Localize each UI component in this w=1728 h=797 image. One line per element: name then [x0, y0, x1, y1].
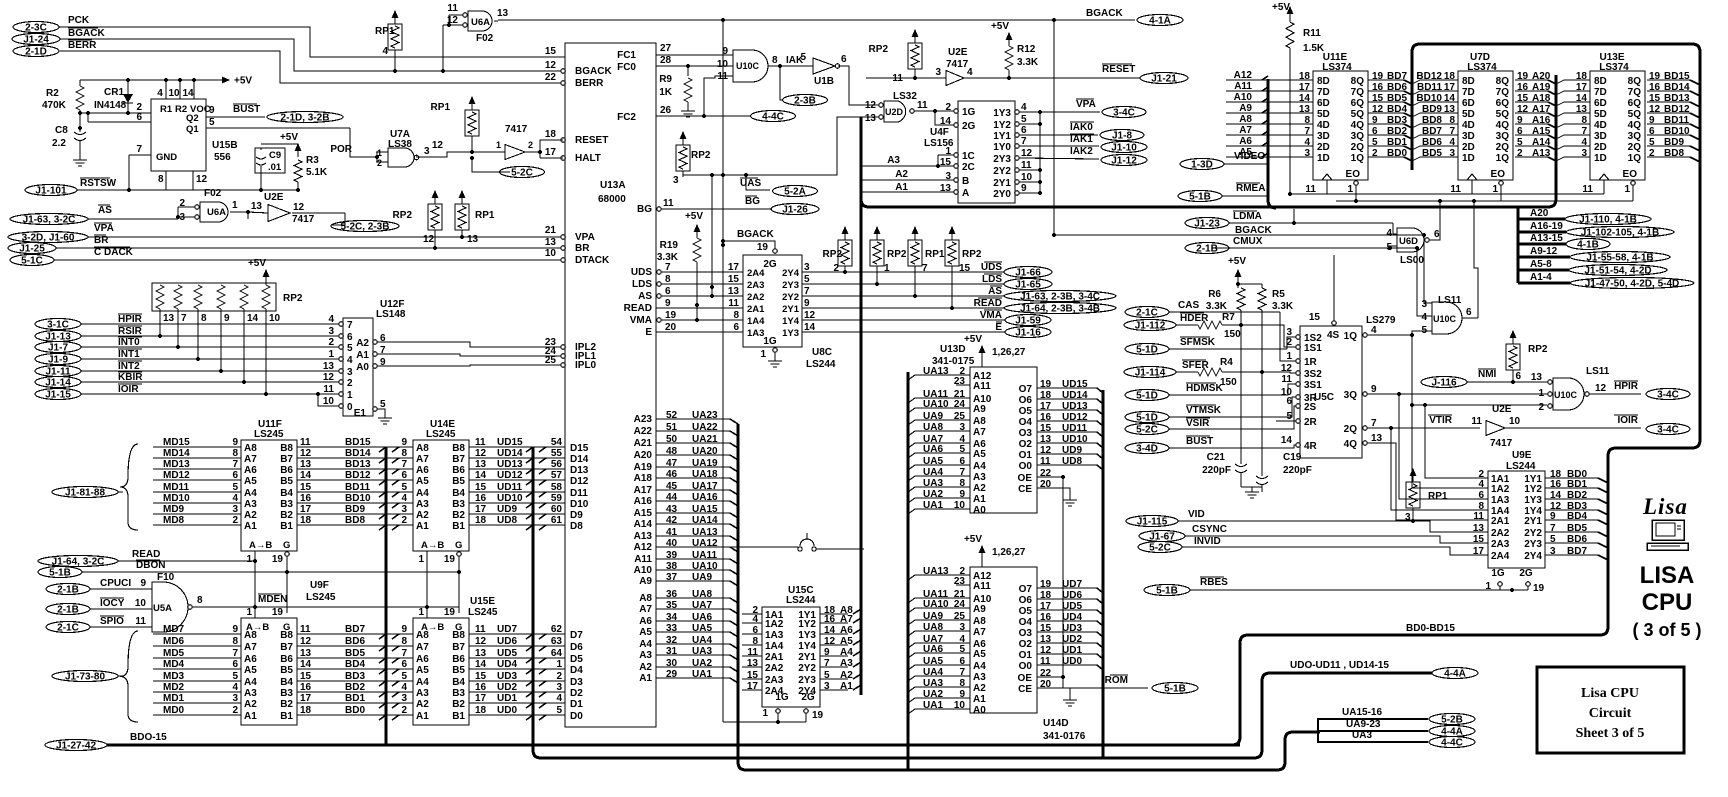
svg-text:7D: 7D: [1594, 87, 1607, 98]
svg-text:4: 4: [556, 693, 562, 704]
svg-text:4Q: 4Q: [1344, 439, 1358, 450]
svg-text:150: 150: [1224, 329, 1241, 340]
svg-text:VPA: VPA: [1076, 99, 1096, 110]
svg-text:BD1: BD1: [345, 693, 365, 704]
svg-text:INT0: INT0: [118, 337, 140, 348]
svg-text:LS244: LS244: [806, 359, 836, 370]
svg-text:A3: A3: [840, 658, 853, 669]
svg-text:READ: READ: [624, 303, 652, 314]
svg-text:39: 39: [666, 550, 678, 561]
svg-text:U10C: U10C: [1554, 390, 1578, 400]
svg-text:2G: 2G: [763, 259, 777, 270]
svg-text:+5V: +5V: [234, 76, 252, 87]
svg-text:1Q: 1Q: [1496, 153, 1510, 164]
svg-text:UA12: UA12: [692, 538, 718, 549]
svg-text:4: 4: [347, 355, 353, 366]
svg-text:5: 5: [1550, 534, 1556, 545]
svg-text:3: 3: [401, 504, 407, 515]
svg-text:B6: B6: [280, 465, 293, 476]
svg-text:15: 15: [1309, 312, 1321, 323]
svg-text:AS: AS: [638, 291, 652, 302]
svg-text:UA7: UA7: [692, 600, 712, 611]
svg-text:RP1: RP1: [1428, 491, 1448, 502]
svg-text:A15: A15: [634, 508, 653, 519]
svg-text:6: 6: [733, 322, 739, 333]
svg-text:2Y0: 2Y0: [993, 189, 1011, 200]
svg-text:19: 19: [1533, 583, 1545, 594]
svg-text:FC1: FC1: [617, 50, 636, 61]
svg-text:11: 11: [475, 624, 486, 635]
svg-text:J1-11: J1-11: [45, 367, 70, 378]
svg-text:BUST: BUST: [233, 104, 260, 115]
svg-text:GND: GND: [156, 152, 177, 163]
svg-text:A7: A7: [1239, 125, 1252, 136]
svg-text:BD7: BD7: [345, 624, 365, 635]
svg-text:+5V: +5V: [1272, 2, 1290, 13]
svg-text:UD12: UD12: [1062, 412, 1088, 423]
svg-text:2-1B: 2-1B: [57, 605, 79, 616]
svg-text:A17: A17: [634, 485, 653, 496]
svg-text:6Q: 6Q: [1496, 98, 1510, 109]
svg-text:19: 19: [444, 607, 456, 618]
svg-text:A→B: A→B: [421, 540, 444, 551]
svg-text:AS: AS: [988, 286, 1002, 297]
svg-text:17: 17: [300, 504, 312, 515]
svg-text:A11: A11: [1234, 81, 1252, 92]
svg-text:2A2: 2A2: [765, 663, 784, 674]
svg-text:11: 11: [917, 100, 928, 111]
svg-text:5D: 5D: [1317, 109, 1330, 120]
svg-text:B5: B5: [280, 665, 293, 676]
svg-text:61: 61: [551, 515, 563, 526]
svg-text:15: 15: [475, 671, 487, 682]
svg-text:UD4: UD4: [1062, 612, 1082, 623]
svg-text:A16-19: A16-19: [1530, 221, 1563, 232]
svg-text:J1-16: J1-16: [1015, 328, 1041, 339]
svg-text:BD8: BD8: [345, 515, 365, 526]
svg-text:UA15: UA15: [692, 504, 718, 515]
svg-text:1K: 1K: [659, 87, 673, 98]
svg-text:12: 12: [1021, 148, 1033, 159]
svg-text:UA18: UA18: [692, 469, 718, 480]
svg-text:RP1: RP1: [925, 249, 945, 260]
svg-text:8: 8: [665, 274, 671, 285]
svg-text:12: 12: [300, 636, 312, 647]
svg-text:BGACK: BGACK: [575, 66, 612, 77]
svg-text:11: 11: [323, 384, 334, 395]
svg-text:14: 14: [182, 88, 194, 99]
svg-text:C9: C9: [269, 150, 281, 161]
svg-text:O6: O6: [1019, 395, 1033, 406]
svg-text:B5: B5: [452, 476, 465, 487]
svg-text:6: 6: [401, 659, 407, 670]
svg-text:B7: B7: [280, 642, 293, 653]
svg-text:11: 11: [728, 298, 739, 309]
svg-text:1Y2: 1Y2: [798, 619, 816, 630]
svg-text:A2: A2: [244, 699, 257, 710]
svg-text:D11: D11: [570, 488, 588, 499]
svg-text:D7: D7: [570, 630, 583, 641]
svg-text:UD15: UD15: [497, 437, 523, 448]
svg-text:A8: A8: [973, 416, 986, 427]
svg-text:A19: A19: [634, 462, 653, 473]
svg-text:R19: R19: [660, 240, 679, 251]
svg-text:3: 3: [959, 622, 965, 633]
svg-text:14: 14: [475, 659, 487, 670]
svg-text:15: 15: [300, 482, 312, 493]
svg-text:MD7: MD7: [163, 624, 185, 635]
svg-text:CPU: CPU: [1642, 589, 1693, 616]
svg-text:J1-64, 3-2C: J1-64, 3-2C: [52, 557, 105, 568]
svg-text:6Q: 6Q: [1628, 98, 1642, 109]
svg-text:A2: A2: [895, 169, 908, 180]
svg-text:UD9: UD9: [1062, 445, 1082, 456]
svg-text:BD1: BD1: [1567, 479, 1587, 490]
svg-text:341-0175: 341-0175: [932, 356, 975, 367]
svg-text:J1-9: J1-9: [48, 355, 68, 366]
svg-text:6: 6: [401, 470, 407, 481]
svg-text:U8C: U8C: [812, 347, 832, 358]
svg-text:12: 12: [293, 202, 305, 213]
svg-text:UD2: UD2: [497, 682, 517, 693]
svg-text:1Q: 1Q: [1344, 331, 1358, 342]
svg-text:4S: 4S: [1327, 330, 1340, 341]
svg-text:O0: O0: [1019, 661, 1033, 672]
svg-text:LDS: LDS: [632, 279, 652, 290]
svg-text:J1-12: J1-12: [1111, 156, 1137, 167]
svg-text:5-1D: 5-1D: [1136, 391, 1158, 402]
svg-text:1: 1: [762, 708, 768, 719]
svg-text:VSIR: VSIR: [1186, 418, 1210, 429]
svg-text:D4: D4: [570, 665, 583, 676]
svg-text:6: 6: [959, 456, 965, 467]
svg-text:47: 47: [666, 458, 678, 469]
svg-text:A→B: A→B: [249, 540, 272, 551]
svg-text:27: 27: [660, 43, 672, 54]
svg-text:6: 6: [841, 54, 847, 65]
svg-text:RESET: RESET: [1102, 64, 1135, 75]
svg-text:OE: OE: [1018, 673, 1033, 684]
svg-text:2S: 2S: [1304, 402, 1317, 413]
svg-text:9: 9: [665, 298, 671, 309]
svg-text:19: 19: [812, 710, 824, 721]
svg-text:13: 13: [467, 234, 479, 245]
svg-text:8: 8: [772, 55, 778, 66]
svg-text:2Y3: 2Y3: [782, 280, 799, 291]
svg-text:MD5: MD5: [163, 648, 185, 659]
svg-text:A13-15: A13-15: [1530, 233, 1563, 244]
svg-text:UDS: UDS: [981, 262, 1002, 273]
svg-text:14: 14: [247, 313, 259, 324]
svg-text:7417: 7417: [946, 59, 969, 70]
svg-text:341-0176: 341-0176: [1043, 731, 1086, 742]
svg-text:220pF: 220pF: [1283, 465, 1312, 476]
svg-text:A3: A3: [244, 688, 257, 699]
svg-text:8D: 8D: [1594, 76, 1607, 87]
svg-text:B1: B1: [280, 521, 293, 532]
svg-text:UA22: UA22: [692, 422, 718, 433]
svg-text:9: 9: [824, 647, 830, 658]
svg-text:4Q: 4Q: [1351, 120, 1365, 131]
svg-text:J1-66: J1-66: [1015, 268, 1041, 279]
svg-text:2: 2: [347, 378, 353, 389]
svg-text:58: 58: [551, 482, 563, 493]
svg-text:UD11: UD11: [497, 482, 522, 493]
svg-text:18: 18: [475, 515, 487, 526]
svg-text:1G: 1G: [1491, 568, 1505, 579]
svg-text:3Q: 3Q: [1351, 131, 1365, 142]
svg-text:LS374: LS374: [1467, 62, 1497, 73]
svg-text:51: 51: [666, 422, 678, 433]
svg-text:MD12: MD12: [163, 470, 190, 481]
svg-text:J1-23: J1-23: [1194, 219, 1220, 230]
svg-text:LS32: LS32: [893, 91, 917, 102]
svg-text:7: 7: [1021, 136, 1027, 147]
svg-text:3S2: 3S2: [1304, 369, 1322, 380]
svg-text:B: B: [962, 176, 969, 187]
svg-text:1Q: 1Q: [1628, 153, 1642, 164]
svg-text:2-1D, 3-2B: 2-1D, 3-2B: [281, 113, 330, 124]
svg-text:E: E: [645, 327, 652, 338]
svg-text:3: 3: [328, 326, 334, 337]
svg-text:1A4: 1A4: [747, 316, 765, 327]
svg-text:16: 16: [475, 682, 487, 693]
svg-text:Q2: Q2: [186, 113, 199, 124]
svg-text:LDMA: LDMA: [1233, 211, 1262, 222]
svg-text:+5V: +5V: [964, 334, 982, 345]
svg-text:2Q: 2Q: [1344, 424, 1358, 435]
svg-text:6: 6: [232, 659, 238, 670]
svg-text:3: 3: [232, 693, 238, 704]
svg-text:U5C: U5C: [1314, 392, 1334, 403]
svg-text:14: 14: [1550, 490, 1562, 501]
svg-text:MDEN: MDEN: [258, 594, 287, 605]
svg-text:8: 8: [232, 636, 238, 647]
svg-text:4-4A: 4-4A: [1441, 727, 1463, 738]
svg-text:2G: 2G: [801, 692, 815, 703]
svg-text:AS: AS: [98, 205, 112, 216]
svg-text:7: 7: [401, 648, 407, 659]
svg-text:CE: CE: [1018, 484, 1032, 495]
svg-text:BD13: BD13: [345, 459, 371, 470]
svg-text:B8: B8: [452, 443, 465, 454]
svg-text:19: 19: [665, 310, 677, 321]
svg-text:J1-7: J1-7: [48, 343, 68, 354]
svg-text:CPUCI: CPUCI: [100, 578, 131, 589]
svg-text:13: 13: [497, 8, 509, 19]
svg-text:R11: R11: [1303, 28, 1321, 39]
svg-text:5-2B: 5-2B: [1441, 715, 1463, 726]
svg-text:29: 29: [666, 669, 678, 680]
svg-text:1A2: 1A2: [1491, 484, 1510, 495]
svg-text:26: 26: [660, 105, 672, 116]
svg-text:A8: A8: [973, 616, 986, 627]
svg-text:11: 11: [1021, 160, 1032, 171]
svg-text:LS00: LS00: [1400, 255, 1424, 266]
svg-text:R4: R4: [1220, 357, 1233, 368]
svg-text:18: 18: [545, 129, 557, 140]
svg-text:INT2: INT2: [118, 361, 140, 372]
svg-text:UD14: UD14: [497, 448, 523, 459]
svg-text:59: 59: [551, 493, 563, 504]
svg-text:U14D: U14D: [1043, 718, 1069, 729]
svg-text:8Q: 8Q: [1351, 76, 1365, 87]
svg-text:12: 12: [475, 636, 487, 647]
svg-text:43: 43: [666, 504, 678, 515]
svg-text:3: 3: [232, 504, 238, 515]
svg-text:16: 16: [1550, 479, 1562, 490]
svg-text:A8: A8: [639, 593, 652, 604]
svg-text:9: 9: [401, 437, 407, 448]
svg-text:33: 33: [666, 623, 678, 634]
svg-text:A1: A1: [416, 711, 429, 722]
svg-text:UD2: UD2: [1062, 634, 1082, 645]
svg-text:LS374: LS374: [1322, 62, 1352, 73]
svg-text:O1: O1: [1019, 450, 1033, 461]
svg-text:A→B: A→B: [246, 622, 269, 633]
svg-text:UD1: UD1: [497, 693, 517, 704]
svg-text:3S1: 3S1: [1304, 380, 1322, 391]
svg-text:BD6: BD6: [1567, 534, 1587, 545]
svg-text:1.5K: 1.5K: [1303, 43, 1325, 54]
svg-text:28: 28: [660, 55, 672, 66]
svg-text:J1-13: J1-13: [45, 332, 71, 343]
svg-text:O3: O3: [1019, 628, 1033, 639]
svg-text:A16: A16: [634, 496, 653, 507]
svg-text:A4: A4: [639, 639, 652, 650]
svg-text:12: 12: [475, 448, 487, 459]
svg-text:3-4D: 3-4D: [1136, 444, 1158, 455]
svg-text:5Q: 5Q: [1351, 109, 1365, 120]
svg-text:BR: BR: [575, 243, 590, 254]
svg-text:DBON: DBON: [136, 560, 165, 571]
svg-text:45: 45: [666, 481, 678, 492]
svg-text:2D: 2D: [1462, 142, 1475, 153]
svg-text:11: 11: [300, 437, 311, 448]
svg-text:5-1D: 5-1D: [1136, 345, 1158, 356]
svg-text:A7: A7: [416, 642, 429, 653]
svg-text:RP1: RP1: [475, 210, 495, 221]
svg-text:A3: A3: [416, 499, 429, 510]
svg-text:A4: A4: [244, 677, 257, 688]
svg-text:A6: A6: [244, 654, 257, 665]
svg-text:RP1: RP1: [375, 26, 395, 37]
svg-text:30: 30: [666, 658, 678, 669]
svg-text:A9: A9: [639, 576, 652, 587]
svg-text:7: 7: [922, 263, 928, 274]
svg-text:7: 7: [401, 459, 407, 470]
svg-text:11: 11: [1305, 184, 1316, 195]
svg-text:2A2: 2A2: [1491, 528, 1510, 539]
svg-text:6: 6: [1466, 307, 1472, 318]
svg-text:15: 15: [545, 46, 557, 57]
svg-text:15: 15: [728, 274, 740, 285]
svg-text:5: 5: [959, 644, 965, 655]
svg-text:1C: 1C: [962, 151, 975, 162]
svg-text:UD9: UD9: [497, 504, 517, 515]
svg-text:3-1C: 3-1C: [47, 320, 69, 331]
svg-text:O7: O7: [1019, 384, 1033, 395]
svg-text:38: 38: [666, 561, 678, 572]
svg-text:2A1: 2A1: [1491, 516, 1510, 527]
svg-text:R5: R5: [1272, 289, 1285, 300]
svg-text:UD7: UD7: [1062, 579, 1082, 590]
svg-text:2D: 2D: [1594, 142, 1607, 153]
svg-text:A1: A1: [973, 494, 986, 505]
svg-text:D5: D5: [570, 654, 583, 665]
svg-text:1: 1: [328, 349, 334, 360]
svg-text:12: 12: [824, 636, 836, 647]
svg-text:MD6: MD6: [163, 636, 185, 647]
svg-text:3: 3: [1405, 512, 1411, 523]
svg-text:60: 60: [551, 504, 563, 515]
svg-text:LDS: LDS: [982, 274, 1002, 285]
svg-text:1: 1: [1347, 184, 1353, 195]
svg-text:A10: A10: [634, 565, 653, 576]
svg-text:SFMSK: SFMSK: [1180, 337, 1216, 348]
svg-text:1: 1: [347, 390, 353, 401]
svg-text:8Q: 8Q: [1628, 76, 1642, 87]
svg-text:UD1: UD1: [1062, 645, 1082, 656]
svg-text:8: 8: [959, 478, 965, 489]
svg-text:O5: O5: [1019, 406, 1033, 417]
svg-text:57: 57: [551, 470, 563, 481]
svg-text:1Y1: 1Y1: [993, 131, 1011, 142]
svg-text:2Y1: 2Y1: [782, 304, 800, 315]
svg-text:12: 12: [865, 100, 877, 111]
svg-text:LS374: LS374: [1599, 62, 1629, 73]
svg-text:1Y3: 1Y3: [782, 328, 799, 339]
svg-text:5: 5: [1386, 242, 1392, 253]
svg-text:BGACK: BGACK: [1235, 225, 1272, 236]
svg-text:B6: B6: [452, 654, 465, 665]
svg-text:17: 17: [475, 693, 487, 704]
svg-text:A5: A5: [244, 476, 257, 487]
svg-text:3D: 3D: [1317, 131, 1330, 142]
svg-text:R2: R2: [46, 88, 59, 99]
svg-text:R6: R6: [1208, 289, 1221, 300]
svg-text:A5: A5: [416, 476, 429, 487]
svg-text:5: 5: [824, 670, 830, 681]
svg-text:U13D: U13D: [940, 344, 966, 355]
svg-text:8Q: 8Q: [1496, 76, 1510, 87]
svg-text:A2: A2: [973, 483, 986, 494]
svg-text:LS245: LS245: [468, 607, 498, 618]
svg-text:RMEA: RMEA: [1236, 183, 1265, 194]
svg-text:BERR: BERR: [575, 78, 604, 89]
svg-text:25: 25: [954, 611, 966, 622]
svg-text:A4: A4: [840, 647, 853, 658]
svg-text:A1: A1: [356, 350, 369, 361]
svg-text:11: 11: [1582, 184, 1593, 195]
svg-text:O1: O1: [1019, 650, 1033, 661]
svg-text:14: 14: [824, 625, 836, 636]
svg-text:2G: 2G: [962, 121, 976, 132]
svg-text:A4: A4: [416, 488, 429, 499]
svg-text:1: 1: [418, 554, 424, 565]
svg-text:A4: A4: [416, 677, 429, 688]
svg-text:UD8: UD8: [1062, 456, 1082, 467]
svg-text:5: 5: [556, 705, 562, 716]
svg-text:MD4: MD4: [163, 659, 185, 670]
svg-text:2Y2: 2Y2: [993, 166, 1011, 177]
svg-text:A0: A0: [973, 505, 986, 516]
svg-text:J1-63, 3-2C: J1-63, 3-2C: [23, 215, 76, 226]
svg-text:UD5: UD5: [1062, 601, 1082, 612]
svg-text:SFER: SFER: [1182, 360, 1209, 371]
svg-text:B3: B3: [280, 499, 293, 510]
svg-text:J1-102-105, 4-1B: J1-102-105, 4-1B: [1581, 228, 1659, 239]
